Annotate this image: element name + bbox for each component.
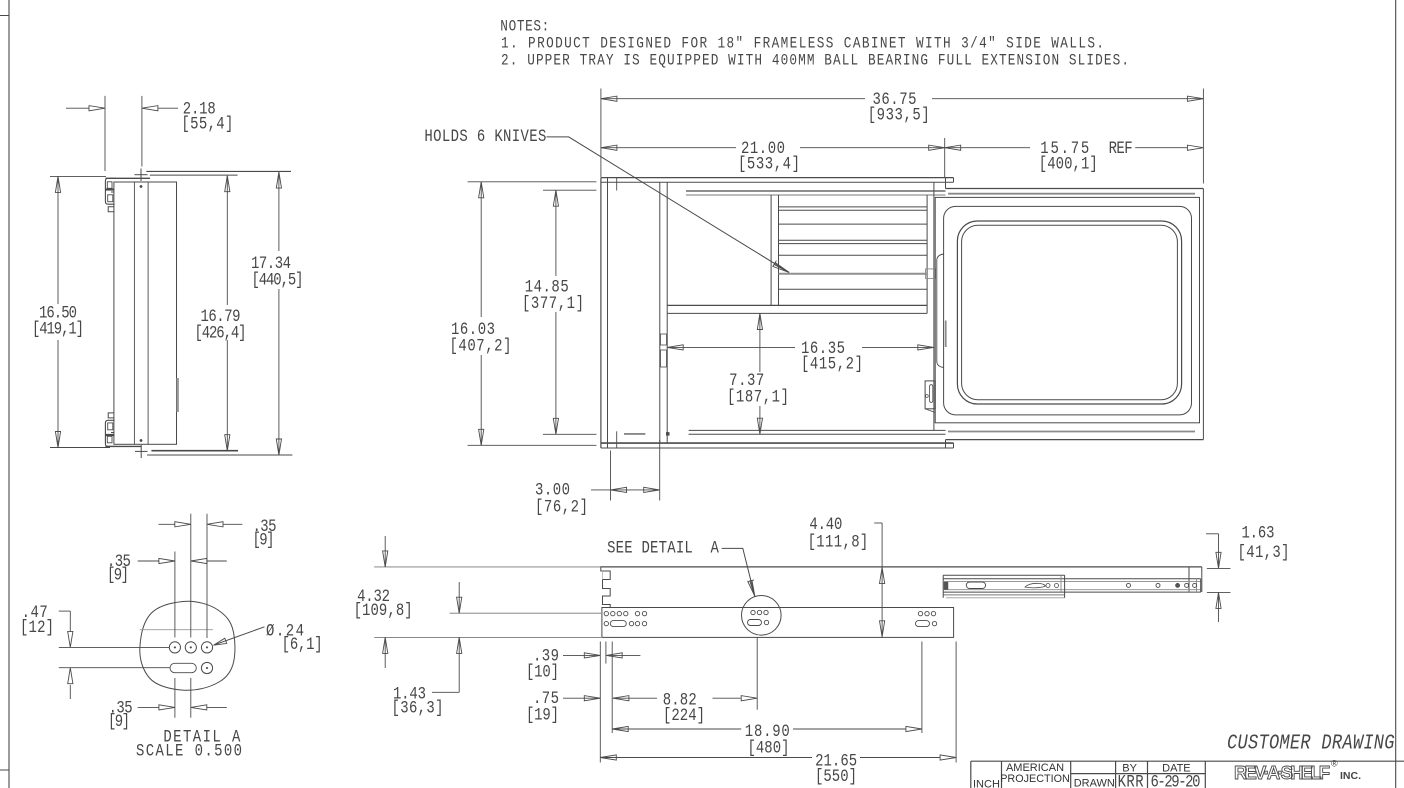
svg-text:[9]: [9] bbox=[252, 530, 274, 550]
svg-text:[419,1]: [419,1] bbox=[32, 319, 84, 339]
svg-text:NOTES:: NOTES: bbox=[500, 18, 549, 36]
svg-text:REV·A·SHELF: REV·A·SHELF bbox=[1234, 762, 1330, 783]
svg-text:INC.: INC. bbox=[1340, 770, 1361, 782]
svg-text:[55,4]: [55,4] bbox=[181, 114, 233, 134]
svg-text:[426,4]: [426,4] bbox=[194, 323, 246, 343]
svg-text:[533,4]: [533,4] bbox=[738, 154, 800, 174]
svg-text:1. PRODUCT DESIGNED FOR 18" FR: 1. PRODUCT DESIGNED FOR 18" FRAMELESS CA… bbox=[501, 35, 1104, 53]
svg-text:®: ® bbox=[1331, 759, 1338, 769]
svg-text:[415,2]: [415,2] bbox=[801, 354, 863, 374]
svg-text:[36,3]: [36,3] bbox=[392, 698, 444, 718]
svg-text:2. UPPER TRAY IS EQUIPPED WITH: 2. UPPER TRAY IS EQUIPPED WITH 400MM BAL… bbox=[501, 52, 1129, 70]
svg-text:[12]: [12] bbox=[20, 618, 54, 638]
svg-text:HOLDS 6 KNIVES: HOLDS 6 KNIVES bbox=[424, 127, 546, 147]
svg-text:[933,5]: [933,5] bbox=[868, 105, 930, 125]
svg-text:[550]: [550] bbox=[815, 767, 857, 787]
svg-text:[6,1]: [6,1] bbox=[282, 635, 323, 655]
svg-text:REF: REF bbox=[1109, 139, 1133, 159]
svg-text:[9]: [9] bbox=[108, 712, 130, 732]
svg-text:[76,2]: [76,2] bbox=[535, 497, 588, 517]
svg-text:KRR: KRR bbox=[1118, 772, 1144, 788]
svg-text:[224]: [224] bbox=[663, 706, 705, 726]
svg-text:6-29-20: 6-29-20 bbox=[1150, 772, 1200, 788]
svg-text:[41,3]: [41,3] bbox=[1238, 543, 1290, 563]
svg-text:[187,1]: [187,1] bbox=[727, 387, 789, 407]
svg-text:[407,2]: [407,2] bbox=[449, 336, 511, 356]
svg-text:[9]: [9] bbox=[107, 565, 129, 585]
svg-text:DRAWN: DRAWN bbox=[1074, 777, 1115, 788]
svg-text:[19]: [19] bbox=[526, 705, 559, 725]
svg-text:[377,1]: [377,1] bbox=[522, 294, 584, 314]
svg-text:SCALE 0.500: SCALE 0.500 bbox=[136, 741, 242, 761]
svg-text:[109,8]: [109,8] bbox=[354, 600, 413, 620]
svg-text:[480]: [480] bbox=[748, 738, 790, 758]
svg-text:A: A bbox=[710, 538, 719, 558]
svg-text:1.63: 1.63 bbox=[1242, 523, 1275, 543]
svg-text:INCH: INCH bbox=[973, 779, 1000, 788]
svg-text:[440,5]: [440,5] bbox=[252, 270, 304, 290]
svg-text:[10]: [10] bbox=[526, 662, 559, 682]
svg-text:[111,8]: [111,8] bbox=[808, 532, 869, 552]
svg-text:CUSTOMER DRAWING: CUSTOMER DRAWING bbox=[1227, 731, 1395, 755]
svg-text:PROJECTION: PROJECTION bbox=[1000, 773, 1070, 785]
svg-text:SEE DETAIL: SEE DETAIL bbox=[607, 538, 693, 558]
svg-text:[400,1]: [400,1] bbox=[1039, 154, 1098, 174]
